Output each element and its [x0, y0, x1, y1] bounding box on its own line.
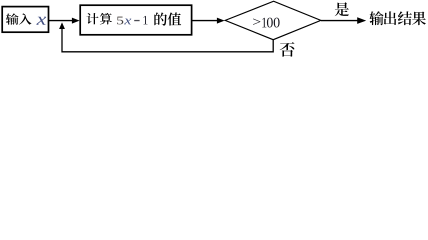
- label: >100 condition: [253, 18, 260, 24]
- wire: diamond to output arrow (yes branch): [321, 20, 358, 22]
- label: shu ru (input): [6, 13, 19, 24]
- label: de zhi (the value of): [154, 13, 167, 26]
- label: variable x in box1: [36, 17, 46, 25]
- label: fou (no): [280, 42, 295, 57]
- label: ji suan (compute): [86, 13, 98, 24]
- label: formula 5x-1: [117, 17, 123, 25]
- process box: input x: [2, 7, 48, 33]
- label: shi (yes): [335, 2, 349, 16]
- wire: no-branch feedback loop: [62, 29, 273, 52]
- wire: box2 to diamond arrow: [192, 20, 217, 22]
- wire: box1 to box2 arrow: [49, 20, 73, 22]
- process box: compute 5x-1: [80, 5, 191, 35]
- decision diamond: [225, 1, 321, 40]
- label: shu chu jie guo (output result): [369, 11, 383, 25]
